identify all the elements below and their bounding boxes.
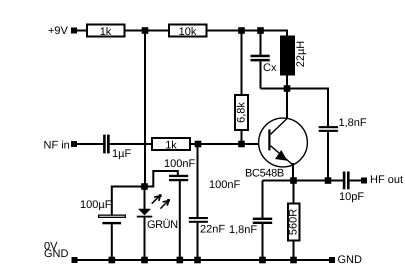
svg-text:GND: GND xyxy=(44,248,69,260)
svg-text:HF out: HF out xyxy=(370,174,403,186)
wire 100uF to ground xyxy=(111,224,113,260)
node NF in terminal xyxy=(71,141,77,147)
junction emitter 560R xyxy=(290,177,297,184)
LED D1 GRUEN xyxy=(137,187,178,261)
wire 1,8nF to HF rail xyxy=(327,132,329,181)
svg-text:100µF: 100µF xyxy=(80,199,112,211)
ground terminal right xyxy=(329,257,335,263)
svg-text:GRÜN: GRÜN xyxy=(147,218,178,231)
node HF out terminal xyxy=(361,178,367,184)
wire node A vertical xyxy=(144,31,146,187)
capacitor C 22nF xyxy=(189,217,226,235)
wire NF in to C 1uF xyxy=(77,143,104,145)
svg-text:Cx: Cx xyxy=(263,62,277,74)
svg-text:6,8k: 6,8k xyxy=(236,102,248,123)
svg-text:100nF: 100nF xyxy=(164,158,195,170)
junction top rail node A xyxy=(142,27,149,34)
wire 100nF to ground xyxy=(179,181,181,260)
capacitor Cx xyxy=(251,55,277,74)
svg-text:22µH: 22µH xyxy=(295,41,307,68)
svg-text:1k: 1k xyxy=(100,26,112,38)
capacitor C 1,8nF bottom xyxy=(229,218,272,236)
node +9V terminal xyxy=(71,28,77,34)
svg-text:+9V: +9V xyxy=(48,25,69,37)
junction HF rail 1,8nF xyxy=(325,177,332,184)
wire inductor to mid rail xyxy=(286,76,288,89)
wire 1,8nF bottom to ground xyxy=(262,224,264,260)
wire mid rail xyxy=(261,89,329,127)
wire 560R bottom xyxy=(293,242,295,261)
junction base 22nF xyxy=(195,141,202,148)
wire 6,8k bottom xyxy=(241,131,243,144)
svg-text:1k: 1k xyxy=(165,139,177,151)
svg-text:1µF: 1µF xyxy=(112,148,131,160)
wire terminal to R1 xyxy=(77,30,87,32)
wire 1uF to R3 xyxy=(110,143,153,145)
junction top rail 6.8k xyxy=(238,27,245,34)
resistor R2 10k xyxy=(169,25,207,38)
junction base 6,8k xyxy=(238,141,245,148)
resistor R5 560R xyxy=(288,204,300,241)
LED light arrow 2 xyxy=(160,199,170,209)
LED light arrow 1 xyxy=(152,194,162,204)
capacitor C 10pF xyxy=(339,172,364,204)
wire R1 to R2 xyxy=(126,30,169,32)
svg-text:100nF: 100nF xyxy=(209,179,240,191)
wire collector xyxy=(286,89,288,120)
resistor R3 1k base xyxy=(152,138,190,151)
wire Cx top xyxy=(260,31,262,55)
wire ground rail xyxy=(78,259,330,261)
svg-text:10pF: 10pF xyxy=(339,191,364,203)
wire 10pF to HF out xyxy=(350,180,362,182)
resistor R4 6,8k xyxy=(235,95,248,130)
svg-text:1,8nF: 1,8nF xyxy=(339,117,367,129)
svg-text:10k: 10k xyxy=(179,26,197,38)
wire 6,8k top xyxy=(241,31,243,95)
junction node A LED xyxy=(141,183,148,190)
wire 1,8nF bottom branch top xyxy=(262,181,264,218)
wire 22nF top xyxy=(197,144,199,217)
wire R2 to inductor corner xyxy=(208,31,288,36)
junction gnd 22nF xyxy=(194,257,201,264)
svg-text:GND: GND xyxy=(338,254,363,266)
junction gnd LED xyxy=(141,257,148,264)
capacitor C 1uF xyxy=(103,135,131,160)
wire HF rail xyxy=(263,180,344,182)
svg-text:22nF: 22nF xyxy=(200,223,225,235)
wire emitter xyxy=(292,163,294,181)
svg-text:BC548B: BC548B xyxy=(245,168,284,180)
junction mid rail collector xyxy=(284,85,291,92)
junction gnd 100uF xyxy=(109,257,116,264)
svg-text:560R: 560R xyxy=(288,209,300,235)
inductor L1 22uH xyxy=(280,36,307,76)
junction gnd 1,8nF xyxy=(259,257,266,264)
resistor R1 1k xyxy=(87,25,125,38)
capacitor C 100uF electrolytic xyxy=(80,199,125,224)
junction top rail Cx xyxy=(257,27,264,34)
junction gnd 100nF xyxy=(177,257,184,264)
wire 100nF link xyxy=(145,171,178,187)
wire base rail xyxy=(191,143,269,145)
ground terminal left xyxy=(72,257,78,263)
capacitor C feedback 1,8nF top xyxy=(319,117,367,132)
wire Cx bottom xyxy=(260,61,262,88)
transistor Q1 BC548B xyxy=(245,118,307,179)
junction gnd 560R xyxy=(290,257,297,264)
wire 560R top xyxy=(293,181,295,203)
svg-text:1,8nF: 1,8nF xyxy=(229,224,257,236)
capacitor C 100nF xyxy=(164,158,195,181)
svg-text:NF in: NF in xyxy=(44,139,70,151)
wire 100uF link xyxy=(112,187,145,215)
wire 22nF bottom xyxy=(197,223,199,260)
